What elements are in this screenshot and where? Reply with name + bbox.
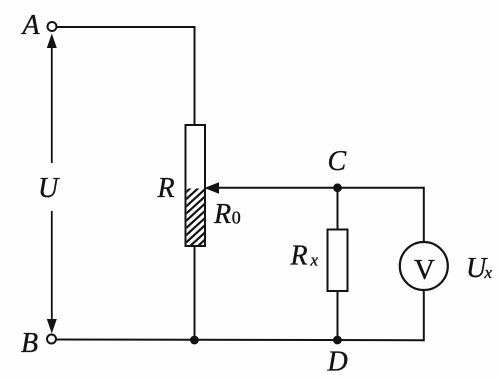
resistor R hatched lower portion (R0 part) [184, 173, 207, 259]
terminal B open circle [47, 335, 56, 344]
svg-text:V: V [414, 254, 435, 286]
wire voltmeter V bottom to bottom rail [423, 290, 425, 342]
wire resistor R bottom to bottom rail [194, 246, 196, 340]
resistor Rx body [328, 230, 348, 292]
wire A top horizontal [57, 26, 195, 28]
wire wiper line to node C and on to right corner [217, 187, 424, 189]
voltmeter V circle [400, 242, 448, 290]
node C junction dot [333, 183, 342, 192]
svg-text:0: 0 [232, 208, 241, 228]
wire node C down to resistor Rx [337, 188, 339, 230]
wire from top corner down to resistor R [194, 26, 196, 125]
svg-text:R: R [290, 241, 308, 272]
svg-text:R: R [157, 173, 175, 204]
wire bottom rail from B to right corner [56, 339, 424, 342]
svg-text:R: R [213, 199, 231, 230]
svg-text:D: D [327, 347, 348, 378]
resistor R body (potentiometer) [186, 125, 206, 246]
wire resistor Rx bottom to node D [337, 291, 339, 340]
svg-text:B: B [21, 328, 38, 359]
wire right corner down to voltmeter V [423, 187, 425, 243]
junction dot at resistor R bottom on rail [190, 336, 199, 345]
svg-text:U: U [38, 173, 60, 204]
voltage arrow U upper segment pointing up at A [47, 34, 57, 164]
wiper arrow head pointing left at resistor R [204, 182, 219, 194]
svg-text:A: A [21, 10, 41, 41]
voltage arrow U lower segment pointing down at B [47, 211, 57, 334]
svg-text:x: x [310, 251, 319, 270]
terminal A open circle [48, 22, 57, 31]
svg-text:x: x [484, 263, 493, 282]
node D junction dot [333, 336, 342, 345]
svg-text:C: C [328, 146, 347, 177]
